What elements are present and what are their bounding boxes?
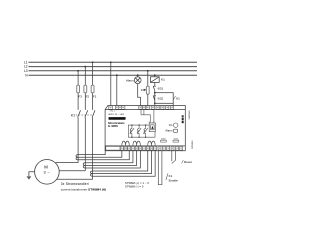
amplifier inner box <box>151 125 155 130</box>
box around S02 (K1 enclosure) <box>155 93 173 104</box>
node L3/F4 <box>147 70 149 72</box>
svg-text:K1: K1 <box>161 77 165 81</box>
svg-text:DOLD: DOLD <box>113 118 121 120</box>
CT secondary winding symbols above bottom terminals <box>122 140 179 146</box>
node N/coil <box>154 74 156 76</box>
reset contact blade <box>172 160 176 164</box>
logo DOLD black bar <box>109 117 126 120</box>
wire CT2 l (staircase w6) <box>85 150 140 168</box>
winding W1 arrow <box>130 128 134 134</box>
winding W1 <box>130 129 132 134</box>
wires from terminals to amplifier <box>140 110 142 115</box>
wire CT1 m (staircase w2) <box>78 150 122 157</box>
wire motor to ground <box>29 172 35 177</box>
terminal 18 <box>146 106 149 109</box>
wire CT2 k (staircase w4) <box>85 150 133 163</box>
top terminal boxes <box>109 106 174 109</box>
motor M circle <box>35 160 60 185</box>
wire CT1 l (staircase w3) <box>78 150 129 160</box>
svg-text:STW8M (-) = 0: STW8M (-) = 0 <box>125 185 144 189</box>
wire lamp to terminal (jog) <box>138 84 141 106</box>
svg-text:K1: K1 <box>176 96 180 100</box>
relay coil K1 <box>150 77 159 83</box>
winding stubs <box>131 125 133 129</box>
switch box reset <box>161 140 167 142</box>
terminal 28 <box>161 106 164 109</box>
wire drop N to terminal A2 <box>116 75 118 105</box>
device top terminal strip line <box>105 109 185 111</box>
node loop bottom W1 <box>131 137 132 138</box>
wire F4 to terminal <box>147 94 149 105</box>
wire drop L3 to F3 <box>77 71 79 85</box>
net N rail <box>29 74 198 76</box>
svg-text:F2: F2 <box>86 95 90 99</box>
svg-text:F1: F1 <box>93 95 97 99</box>
winding W3 arrow <box>144 128 148 134</box>
svg-text:STW8M (+) = 1 ...3: STW8M (+) = 1 ...3 <box>125 181 149 185</box>
CT2 secondary winding arches <box>133 141 140 146</box>
svg-text:0255301: 0255301 <box>191 141 193 150</box>
reset button stubs <box>172 151 184 164</box>
winding W3 <box>144 129 146 134</box>
svg-text:On: On <box>169 123 173 127</box>
wire motor phase W (to line3) <box>57 178 93 180</box>
terminal 16 <box>142 106 145 109</box>
node L1/A1 <box>110 61 112 63</box>
node loop bottom W2 <box>138 137 139 138</box>
LED Alarm <box>173 129 177 132</box>
switch box enable <box>173 140 179 142</box>
contact S01 (NC) <box>153 86 156 93</box>
wire N to lamp <box>137 75 139 77</box>
svg-text:Enable: Enable <box>169 179 179 183</box>
wire drop L3 to fuse F4 <box>147 71 149 86</box>
wire CT3 m (staircase w8) <box>93 150 152 174</box>
terminal 26 <box>156 106 159 109</box>
wire CT2 m (staircase w5) <box>85 150 136 165</box>
wire N to coil K1 <box>154 75 156 77</box>
amplifier U2 outer box <box>149 123 155 132</box>
X1 enable link <box>158 151 168 185</box>
amplifier pin labels <box>149 122 151 123</box>
lamp H1 alarm indicator <box>134 77 141 84</box>
wire F2 to K1 contact <box>84 93 86 110</box>
wire drop L2 to F2 <box>84 67 86 86</box>
svg-text:F4: F4 <box>141 88 145 92</box>
net L1 rail <box>29 61 198 63</box>
wire drop L1 to F1 <box>92 62 94 85</box>
svg-text:IL 9056: IL 9056 <box>108 124 118 128</box>
internal amplifier loop <box>128 110 155 138</box>
amplifier triangle <box>151 126 153 129</box>
node L3/F3 <box>77 70 79 72</box>
svg-text:current transformer STW8M4 (H): current transformer STW8M4 (H) <box>61 187 106 191</box>
net L2 rail <box>29 66 198 68</box>
node S01/box <box>154 92 156 94</box>
terminal 38 <box>171 106 174 109</box>
leader K1 label <box>173 96 175 99</box>
node box bottom <box>154 102 156 104</box>
svg-text:3 ~: 3 ~ <box>44 170 51 174</box>
wire CT3 l (staircase w9) <box>93 150 156 176</box>
wire box to terminal (left) <box>154 103 156 105</box>
LED On <box>174 123 178 127</box>
junction dots <box>77 61 156 138</box>
node L1/F1 <box>92 61 94 63</box>
contactor K1 pole 1 <box>78 110 81 162</box>
vertical type text inside device <box>182 115 184 123</box>
terminal block A2 group <box>115 106 125 109</box>
terminal A1 <box>109 106 113 109</box>
current transformer T3 on line3 <box>90 171 92 176</box>
fuse F2 <box>84 85 87 93</box>
wire box to terminal (right) <box>172 103 174 105</box>
fuse F4 <box>146 86 149 94</box>
device U1 outline <box>105 106 185 151</box>
svg-text:AC/DC 24 ... 240V: AC/DC 24 ... 240V <box>109 113 125 116</box>
tiny terminal marks top strip <box>110 106 173 109</box>
contactor K1 mechanical link (dashed) <box>76 114 94 116</box>
ground symbol (earth arrow) <box>27 176 32 179</box>
device bottom terminal strip line <box>105 145 185 147</box>
wire motor phase U (to line1) <box>56 162 79 164</box>
tiny gray marks above switch boxes <box>149 122 178 140</box>
terminal 25 <box>151 106 154 109</box>
svg-text:Alarm: Alarm <box>165 129 173 133</box>
net L3 rail <box>29 70 198 72</box>
contactor K1 pole 3 <box>92 110 95 179</box>
svg-text:K1: K1 <box>169 174 173 178</box>
winding W2 arrow <box>137 128 141 134</box>
node loop top W2 <box>138 124 139 125</box>
svg-text:M: M <box>44 164 48 169</box>
fuse F1 <box>91 85 94 93</box>
bottom terminal boxes control group <box>158 146 161 150</box>
terminal 15 <box>139 106 142 109</box>
current transformer T1 on line1 <box>76 155 78 160</box>
svg-text:-S01: -S01 <box>157 86 164 90</box>
svg-text:L3: L3 <box>24 69 28 73</box>
svg-text:K1: K1 <box>71 113 75 117</box>
winding W2 <box>137 129 139 134</box>
current transformer T2 on line2 <box>83 163 85 168</box>
contact S02 (NC) on box edge <box>153 96 156 101</box>
node N/lamp <box>137 74 139 76</box>
bottom terminal boxes k1..l3 (CT group) <box>120 146 123 150</box>
leader reset label <box>182 160 184 164</box>
CT3 secondary winding arches <box>148 141 155 146</box>
svg-text:Reset: Reset <box>184 160 192 164</box>
wire CT3 k (staircase w7) <box>93 150 148 171</box>
node loop top W3 <box>145 124 146 125</box>
wire CT1 k (staircase w1) <box>78 151 105 155</box>
node L2/F2 <box>84 66 86 68</box>
svg-text:-S02: -S02 <box>157 97 164 101</box>
node loop bottom W3 <box>145 137 146 138</box>
CT1 secondary winding arches <box>122 141 129 146</box>
wire coil K1 to contact S01 <box>154 82 156 86</box>
svg-text:3x Stromwandler/: 3x Stromwandler/ <box>61 182 89 186</box>
wire F1 to K1 contact <box>92 93 94 110</box>
svg-text:F3: F3 <box>78 95 82 99</box>
wire F3 to K1 contact <box>77 93 79 110</box>
loop wiring <box>128 125 155 137</box>
contactor K1 pole 2 <box>85 110 88 171</box>
wire drop L1 to terminal A1 <box>110 62 112 105</box>
terminal 35 <box>166 106 169 109</box>
node loop top W1 <box>131 124 132 125</box>
svg-text:1 Ta 1: 1 Ta 1 <box>110 111 115 113</box>
node N/A2 <box>116 74 118 76</box>
tiny terminal marks bottom strip <box>121 147 182 150</box>
svg-text:STW9056: STW9056 <box>187 111 189 121</box>
fuse F3 <box>77 85 80 93</box>
bottom terminal strip left box <box>106 146 183 150</box>
svg-text:Alarm: Alarm <box>126 78 134 82</box>
wire motor phase V (to line2) <box>59 170 85 172</box>
